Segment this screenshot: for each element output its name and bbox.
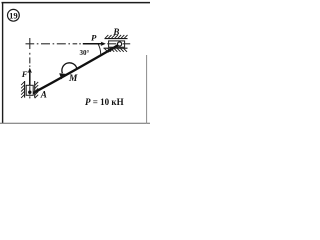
support A left guide hatching bbox=[21, 82, 25, 98]
force P arrow along axis bbox=[83, 42, 106, 46]
support A left guide line bbox=[24, 81, 26, 98]
pin at A bbox=[28, 91, 31, 94]
svg-text:A: A bbox=[40, 90, 47, 100]
frame bottom border bbox=[0, 122, 150, 124]
frame left border bbox=[2, 2, 4, 124]
svg-text:30°: 30° bbox=[80, 49, 90, 57]
problem number badge 19 bbox=[7, 9, 19, 21]
vertical centerline (axis through A) bbox=[29, 38, 31, 67]
label F (force) bbox=[21, 69, 28, 79]
support B upper ground line bbox=[105, 38, 128, 40]
label 30 degrees bbox=[80, 49, 90, 57]
label B (support) bbox=[112, 27, 119, 37]
support B upper hatching bbox=[105, 35, 128, 38]
frame right border bbox=[146, 55, 148, 124]
support A right guide hatching bbox=[35, 82, 39, 98]
support A slider block bbox=[26, 85, 33, 95]
support B lower hatching bbox=[105, 49, 128, 52]
svg-text:F: F bbox=[21, 69, 28, 79]
svg-text:19: 19 bbox=[9, 10, 18, 20]
svg-text:P = 10 кН: P = 10 кН bbox=[85, 97, 124, 107]
support B slider block bbox=[109, 41, 125, 47]
support A right guide line bbox=[34, 81, 36, 98]
svg-text:P: P bbox=[91, 33, 97, 43]
label P (force) bbox=[91, 33, 97, 43]
beam AB (rigid rod) bbox=[30, 45, 118, 95]
label M bbox=[68, 74, 78, 84]
svg-text:B: B bbox=[112, 27, 119, 37]
vertical centerline through A slider bbox=[29, 86, 31, 98]
caption P = 10 kN bbox=[85, 97, 124, 107]
svg-text:M: M bbox=[68, 74, 78, 84]
angle arc 30 degrees at B bbox=[98, 44, 101, 55]
frame top border bbox=[2, 2, 151, 4]
support B lower ground line bbox=[104, 47, 128, 49]
label A (support) bbox=[40, 90, 47, 100]
horizontal centerline (dash-dot axis through B) bbox=[26, 43, 81, 45]
moment M arc with arrowhead bbox=[59, 63, 77, 80]
beam end stub entering slider B up to pin bbox=[108, 45, 118, 51]
centerline through B slider bbox=[107, 43, 130, 45]
force F arrow (upward at A) bbox=[28, 68, 32, 86]
pin at B bbox=[118, 42, 122, 46]
